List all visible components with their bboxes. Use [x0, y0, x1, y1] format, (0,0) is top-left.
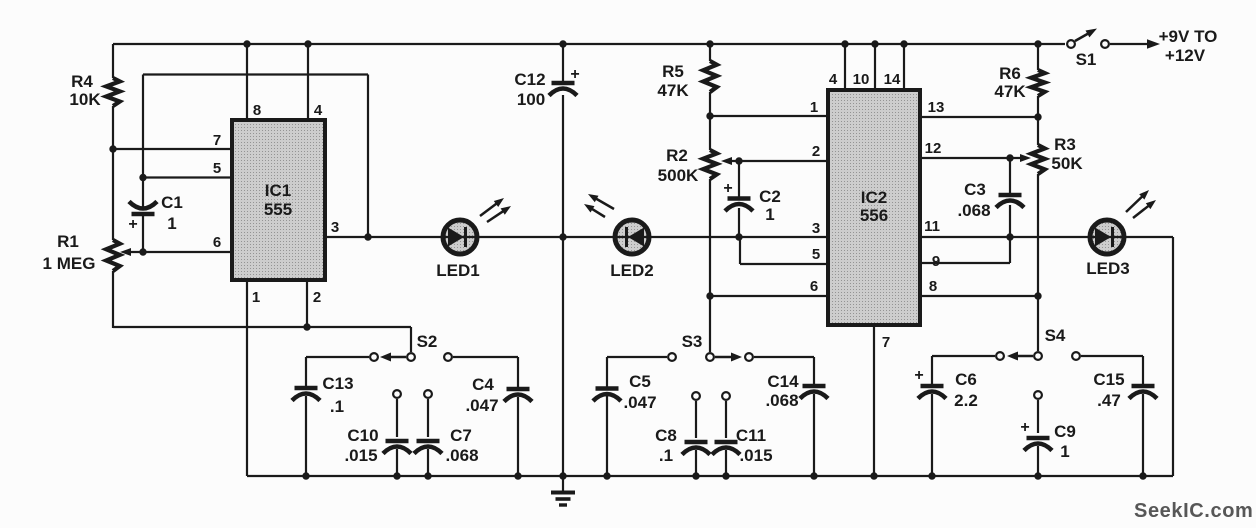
wire IC2 pin14 to rail: [903, 44, 905, 90]
node C2 bottom junction: [735, 233, 742, 240]
wire IC1 pin5 line: [143, 176, 232, 178]
svg-text:C3: C3: [964, 180, 986, 199]
svg-text:.047: .047: [465, 396, 498, 415]
wire IC1 pin1 to ground rail: [246, 280, 248, 476]
svg-text:1 MEG: 1 MEG: [43, 254, 96, 273]
node IC2 pin4 rail junction: [841, 40, 848, 47]
resistor R5 47K: [703, 61, 717, 92]
wire C12 branch bottom to ground: [562, 95, 564, 476]
potentiometer R3 50K: [1031, 145, 1045, 174]
svg-text:6: 6: [213, 234, 221, 251]
node R6 bottom junction: [1034, 113, 1041, 120]
svg-text:7: 7: [882, 334, 890, 351]
wire top supply rail: [113, 43, 1065, 45]
svg-text:9: 9: [932, 253, 940, 270]
wire IC1 pin6 line: [130, 251, 232, 253]
wire IC2 pin10 to rail: [874, 44, 876, 90]
wire S4 right contact to C15: [1081, 355, 1143, 357]
svg-text:2: 2: [313, 289, 321, 306]
capacitor C1 1: [140, 207, 146, 213]
svg-text:C5: C5: [629, 372, 651, 391]
wire C12 branch top: [562, 44, 564, 83]
op-amp timer IC2 556: [828, 90, 920, 325]
svg-text:2.2: 2.2: [954, 391, 978, 410]
wire IC1 pin2 down: [306, 280, 308, 328]
node IC2 pin14 rail junction: [900, 40, 907, 47]
svg-text:555: 555: [264, 200, 292, 219]
wire IC2 pin2 line: [731, 160, 828, 162]
switch S2 pole contact: [407, 353, 415, 361]
svg-text:R3: R3: [1054, 135, 1076, 154]
wire IC2 pin7 to ground rail: [873, 325, 875, 476]
wire IC2 pin6 line: [710, 295, 828, 297]
svg-text:1: 1: [810, 99, 818, 116]
svg-text:+: +: [1020, 419, 1029, 436]
svg-text:3: 3: [331, 219, 339, 236]
node C3 bottom junction: [1006, 233, 1013, 240]
switch S3 contact C8 stub: [692, 392, 700, 400]
svg-text:R5: R5: [662, 62, 684, 81]
svg-text:50K: 50K: [1051, 154, 1083, 173]
wire R3 branch down to pin8 line: [1037, 117, 1039, 145]
svg-text:C11: C11: [736, 426, 766, 445]
wire IC2 pin12 line: [920, 157, 1022, 159]
svg-text:.047: .047: [623, 393, 656, 412]
svg-text:5: 5: [812, 246, 820, 263]
junction dots on ground rail: [302, 472, 309, 479]
svg-text:R4: R4: [71, 72, 93, 91]
svg-text:10K: 10K: [69, 90, 101, 109]
node C2 top junction: [735, 157, 742, 164]
node pin6 junction: [706, 292, 713, 299]
svg-text:556: 556: [860, 206, 888, 225]
capacitor C9 1: [1035, 440, 1041, 446]
node R6 rail junction: [1034, 40, 1041, 47]
switch S1 left contact: [1067, 40, 1075, 48]
wire IC1 pin8 to rail: [246, 44, 248, 120]
svg-text:R6: R6: [999, 64, 1021, 83]
node pin4 rail junction: [304, 40, 311, 47]
svg-text:S4: S4: [1045, 326, 1066, 345]
switch S2 contact C7 stub: [424, 390, 432, 398]
potentiometer R1 wiper arrow: [120, 248, 131, 256]
node pin7 junction: [109, 145, 116, 152]
svg-text:C8: C8: [655, 426, 677, 445]
svg-text:+: +: [914, 367, 923, 384]
svg-text:IC2: IC2: [861, 188, 887, 207]
wire S2 left contact to C13: [306, 356, 369, 358]
switch S3 right contact: [745, 353, 753, 361]
switch S2 right contact: [444, 353, 452, 361]
svg-text:.47: .47: [1097, 391, 1121, 410]
svg-text:2: 2: [812, 143, 820, 160]
wire C2 branch: [738, 161, 740, 198]
wire R6 branch: [1037, 44, 1039, 70]
svg-text:8: 8: [253, 102, 261, 119]
svg-text:.015: .015: [344, 446, 377, 465]
svg-text:C13: C13: [322, 374, 353, 393]
svg-text:1: 1: [167, 214, 176, 233]
svg-text:4: 4: [314, 102, 323, 119]
wire IC2 pin8 line: [920, 295, 1038, 297]
capacitor C5 .047: [604, 390, 610, 396]
svg-text:C2: C2: [759, 187, 781, 206]
svg-text:6: 6: [810, 278, 818, 295]
capacitor C13 .1: [303, 390, 309, 396]
svg-text:8: 8: [929, 278, 937, 295]
switch S1 right contact: [1101, 40, 1109, 48]
svg-text:5: 5: [213, 160, 221, 177]
wire output line pin3 to LEDs to IC2 pin3: [325, 236, 828, 238]
svg-text:+: +: [723, 180, 732, 197]
switch S3 left contact: [668, 353, 676, 361]
op-amp timer IC1 555: [232, 120, 325, 280]
wire IC1 pin4 to rail: [307, 44, 309, 120]
wire IC1 pin7 to left rail: [113, 148, 232, 150]
power arrow +9V: [1147, 39, 1160, 49]
wire S2 right contact to C4: [453, 356, 518, 358]
svg-text:C9: C9: [1054, 422, 1076, 441]
svg-text:.068: .068: [957, 201, 990, 220]
svg-text:11: 11: [924, 218, 940, 235]
switch S4 left contact: [996, 352, 1004, 360]
svg-text:SeekIC.com: SeekIC.com: [1134, 500, 1253, 522]
svg-text:+9V TO: +9V TO: [1159, 27, 1218, 46]
switch S4 wiper arrow: [1016, 355, 1033, 358]
wire R1 bottom horizontal to S2: [113, 326, 411, 328]
wire C13 to ground rail: [305, 396, 307, 476]
svg-text:.015: .015: [739, 446, 772, 465]
capacitor C8 .1: [693, 444, 699, 450]
svg-text:14: 14: [884, 71, 901, 88]
wire IC2 pin1 line: [710, 115, 828, 117]
node output feedback junction: [364, 233, 371, 240]
LED3: [1090, 220, 1124, 254]
svg-text:100: 100: [517, 90, 545, 109]
svg-text:7: 7: [213, 132, 221, 149]
node pin1 junction: [706, 112, 713, 119]
node R5 rail junction: [706, 40, 713, 47]
svg-text:10: 10: [853, 71, 870, 88]
switch S1 lever arrow: [1075, 33, 1089, 41]
svg-text:LED3: LED3: [1086, 259, 1129, 278]
wire C4 to ground rail: [517, 397, 519, 476]
svg-text:C15: C15: [1093, 370, 1124, 389]
svg-text:.068: .068: [445, 446, 478, 465]
svg-text:LED2: LED2: [610, 261, 653, 280]
wire pin8 down to S4: [1037, 296, 1039, 351]
svg-text:C10: C10: [347, 426, 378, 445]
wire R5 R2 branch: [709, 44, 711, 61]
LED2: [615, 220, 649, 254]
svg-text:500K: 500K: [658, 166, 699, 185]
svg-text:47K: 47K: [994, 82, 1026, 101]
wire S4 left contact to C6: [932, 355, 995, 357]
svg-text:IC1: IC1: [265, 181, 291, 200]
svg-text:S2: S2: [417, 332, 438, 351]
capacitor C3 .068: [1007, 197, 1013, 203]
svg-text:C7: C7: [450, 426, 472, 445]
switch S2 wiper arrow: [389, 356, 406, 359]
capacitor C2 1: [736, 200, 742, 206]
svg-text:12: 12: [925, 140, 942, 157]
capacitor C10 .015: [394, 443, 400, 449]
capacitor C6 2.2: [929, 388, 935, 394]
wire IC2 pin11 line to LED3: [920, 236, 1173, 238]
switch S2 contact C10 stub: [393, 390, 401, 398]
wire C3 branch: [1009, 158, 1011, 195]
wire left vertical R4/R1 branch: [112, 44, 114, 78]
svg-text:R1: R1: [57, 232, 79, 251]
svg-text:4: 4: [829, 71, 838, 88]
capacitor C15 .47: [1140, 388, 1146, 394]
wire IC2 pin5 line: [739, 237, 741, 264]
svg-text:C6: C6: [955, 370, 977, 389]
svg-text:C1: C1: [161, 193, 183, 212]
svg-text:C12: C12: [514, 70, 545, 89]
svg-text:C14: C14: [767, 372, 799, 391]
potentiometer R3 wiper arrow: [1020, 154, 1031, 162]
capacitor C12 100: [560, 85, 566, 91]
node C3 top junction: [1006, 154, 1013, 161]
resistor R6 47K: [1031, 70, 1045, 96]
ground: [562, 476, 564, 492]
wire S3 left contact to C5: [607, 356, 667, 358]
node C12 ground junction: [559, 472, 566, 479]
svg-text:R2: R2: [666, 146, 688, 165]
svg-text:.1: .1: [330, 397, 344, 416]
svg-text:S3: S3: [682, 332, 703, 351]
svg-text:C4: C4: [472, 375, 494, 394]
svg-text:1: 1: [252, 289, 260, 306]
wire IC2 pin4 to rail: [844, 44, 846, 90]
node C12 rail junction: [559, 40, 566, 47]
svg-text:1: 1: [1060, 442, 1069, 461]
wire right vertical LED3 return: [1172, 237, 1174, 476]
wire IC2 pin9 line: [920, 262, 1010, 264]
node pin8 rail junction: [243, 40, 250, 47]
switch S3 pole contact: [706, 353, 714, 361]
svg-text:S1: S1: [1076, 50, 1097, 69]
svg-text:+: +: [570, 66, 579, 83]
switch S3 wiper arrow: [715, 356, 733, 359]
node IC2 pin10 rail junction: [871, 40, 878, 47]
node C12 output junction: [559, 233, 566, 240]
wire S3 right contact to C14: [754, 356, 814, 358]
switch S2 left contact: [370, 353, 378, 361]
svg-text:3: 3: [812, 220, 820, 237]
LED1: [443, 220, 477, 254]
wire IC2 pin13 line: [920, 116, 1038, 118]
node pin5 junction: [139, 174, 146, 181]
switch S4 pole contact: [1034, 352, 1042, 360]
potentiometer R1 1 MEG: [106, 240, 120, 271]
wire C1 branch: [142, 178, 144, 215]
svg-text:.1: .1: [659, 446, 673, 465]
capacitor C7 .068: [425, 443, 431, 449]
svg-text:LED1: LED1: [436, 261, 479, 280]
wire bottom ground rail: [247, 475, 1173, 477]
switch S4 contact C9 stub: [1034, 391, 1042, 399]
svg-text:1: 1: [765, 205, 774, 224]
potentiometer R2 500K: [703, 150, 717, 179]
capacitor C11 .015: [723, 444, 729, 450]
resistor R4 10K: [106, 78, 120, 106]
wire S1 to power arrow: [1110, 43, 1148, 45]
svg-text:+12V: +12V: [1165, 46, 1206, 65]
node pin7 ground junction: [870, 472, 877, 479]
node C1 bottom junction: [139, 248, 146, 255]
node pin8 junction: [1034, 292, 1041, 299]
potentiometer R2 wiper arrow: [721, 157, 732, 165]
capacitor C4 .047: [515, 391, 521, 397]
switch S4 right contact: [1072, 352, 1080, 360]
wire feedback top horizontal: [143, 73, 368, 75]
switch S3 contact C11 stub: [722, 392, 730, 400]
capacitor C14 .068: [811, 388, 817, 394]
svg-text:.068: .068: [765, 391, 798, 410]
node pin2 junction: [303, 323, 310, 330]
svg-text:13: 13: [928, 99, 945, 116]
svg-text:47K: 47K: [657, 81, 689, 100]
svg-text:+: +: [128, 216, 137, 233]
